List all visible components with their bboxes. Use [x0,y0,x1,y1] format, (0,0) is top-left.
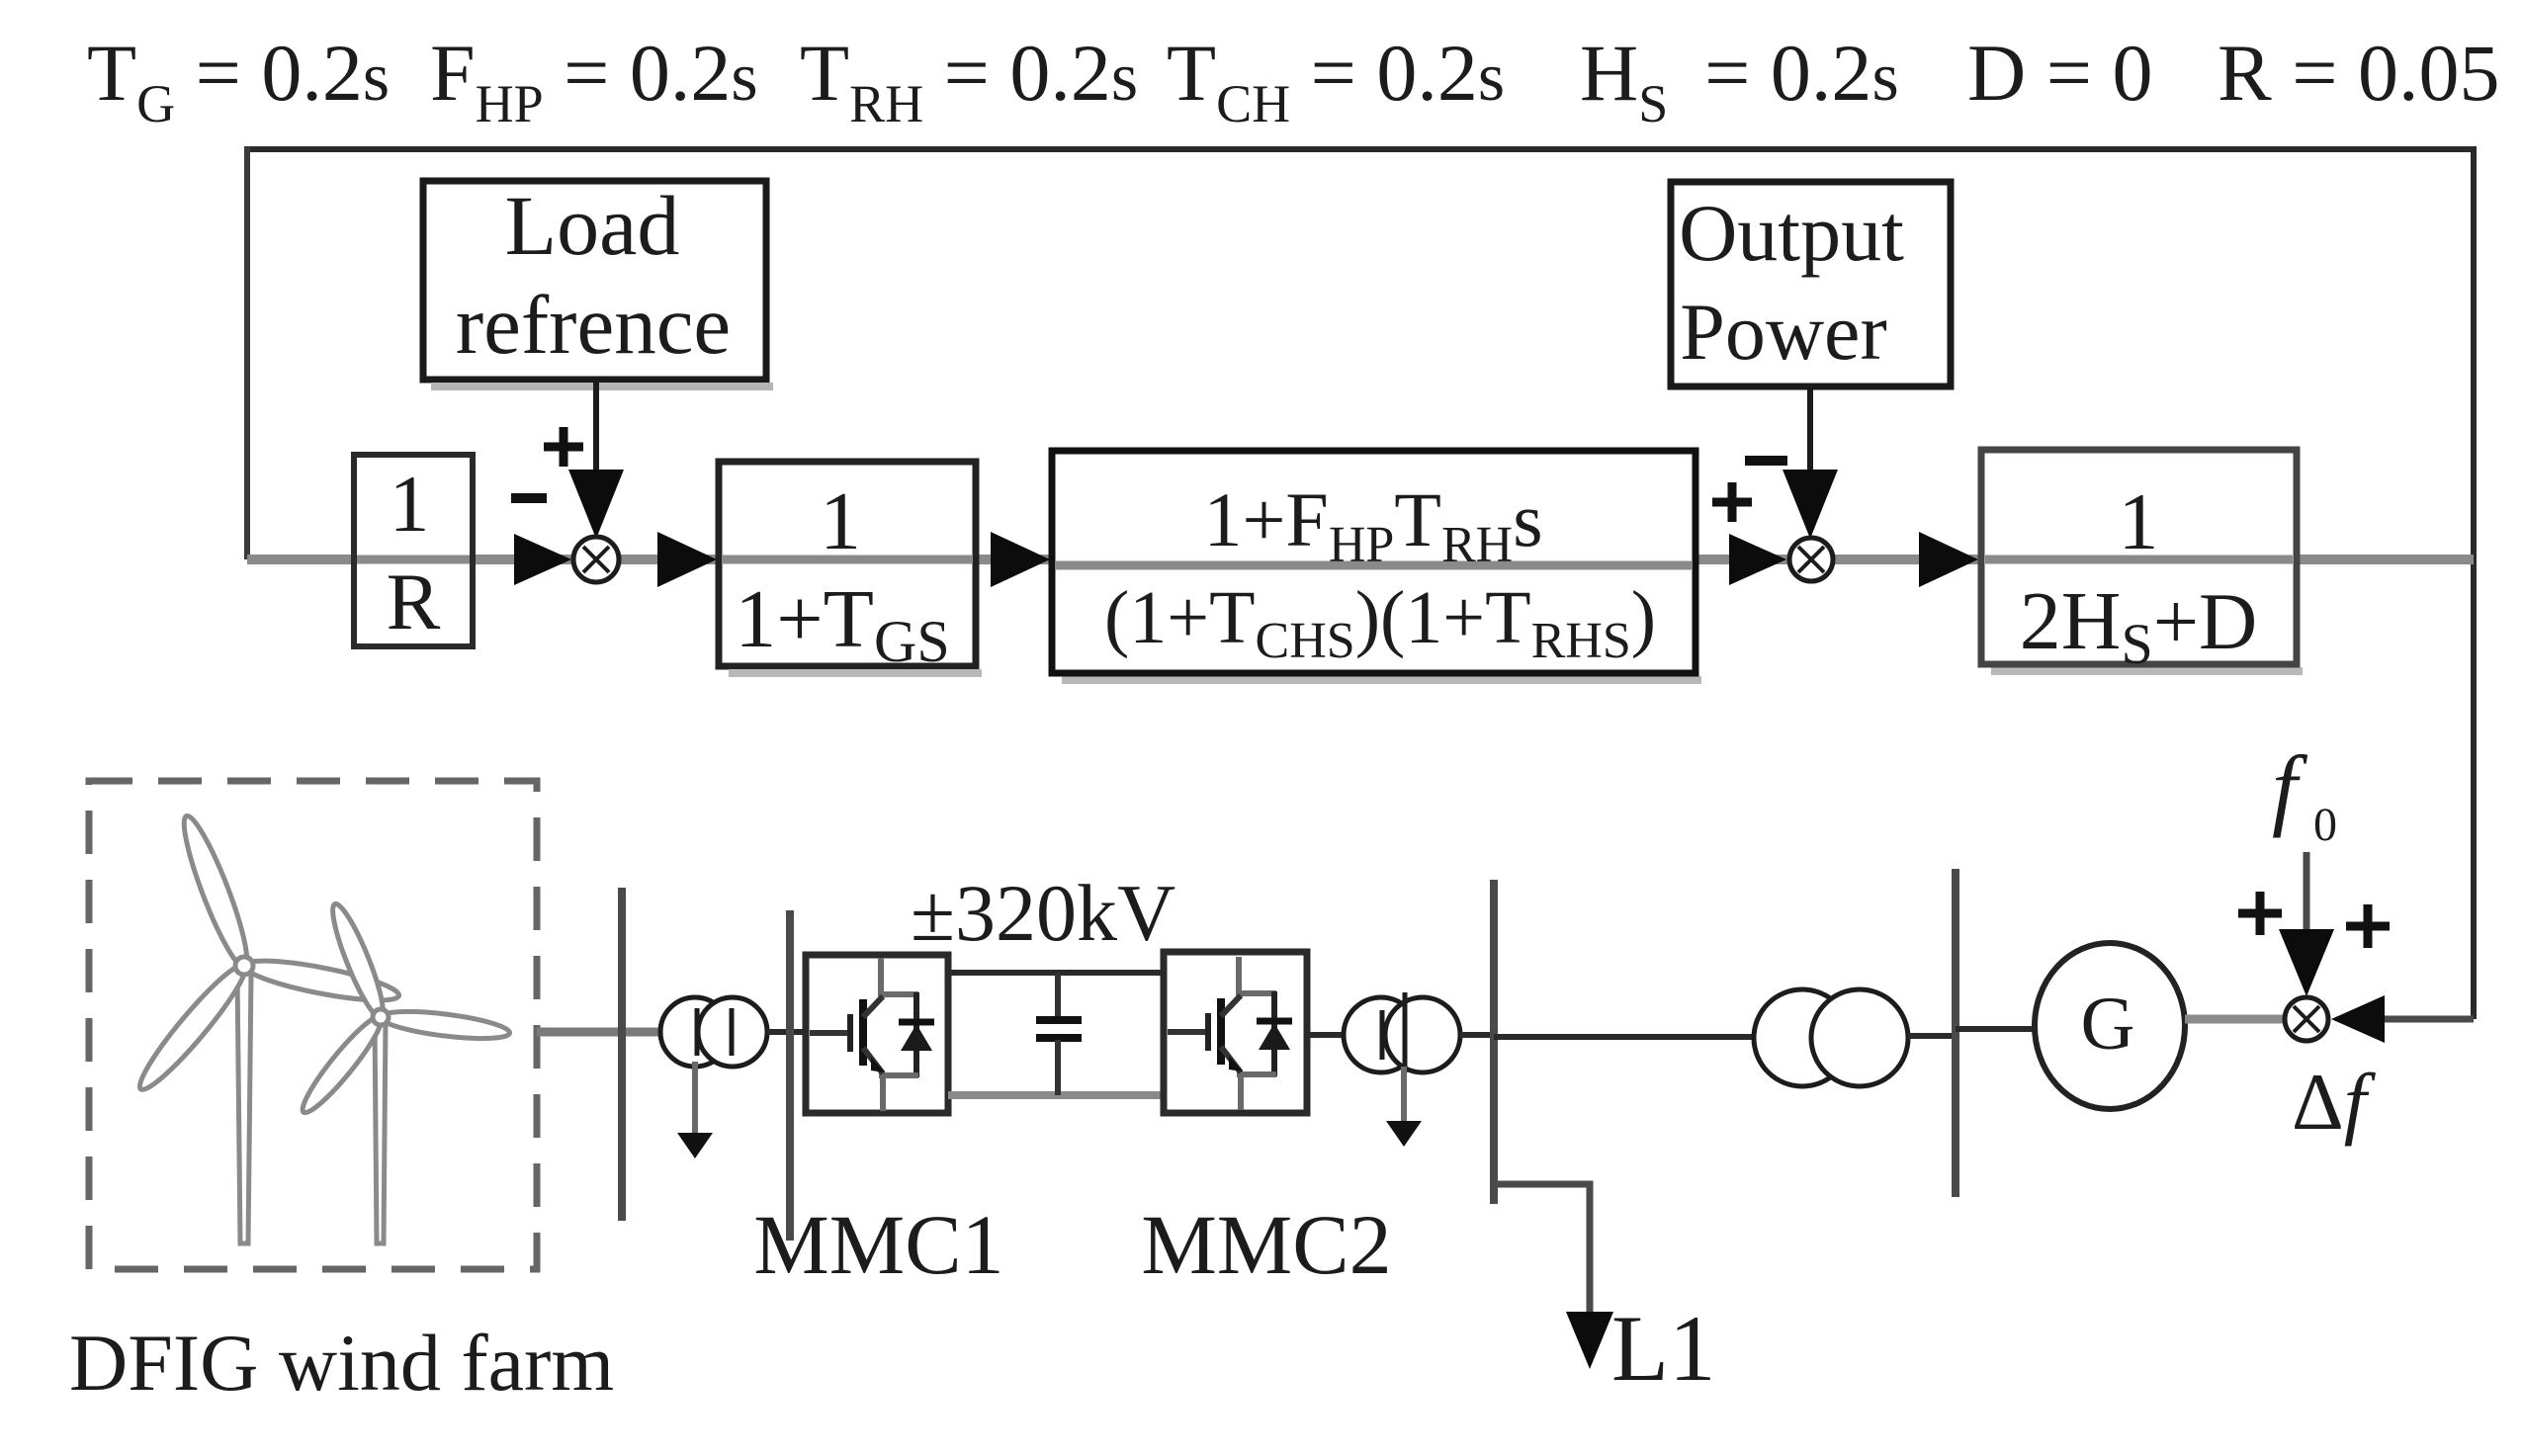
svg-text:1: 1 [390,459,430,549]
bus bar 4 [1952,869,1959,1197]
ground under T2 [1401,1067,1407,1123]
summing junction sum1 [573,537,619,582]
bus bar 1 [618,888,626,1221]
svg-text:0: 0 [2313,799,2337,851]
svg-text:R = 0.05: R = 0.05 [2218,28,2499,118]
wire outer-loop top [245,146,2476,152]
svg-text:MMC1: MMC1 [753,1197,1003,1292]
summing junction sum3 [2285,997,2328,1041]
svg-text:DFIG wind farm: DFIG wind farm [69,1318,614,1408]
svg-text:FHP = 0.2s: FHP = 0.2s [430,28,758,133]
block Output Power [1671,182,1951,386]
svg-text:Δf: Δf [2292,1057,2377,1147]
wire T1 to bus2 [767,1029,806,1035]
block Load refrence [423,178,773,386]
label minus at sum2 [1745,456,1787,466]
block 1/(1+TGs) [719,462,976,674]
svg-text:1: 1 [2119,476,2159,566]
DFIG dashed box [89,781,537,1269]
node params-line [87,28,2499,133]
svg-text:f: f [2272,737,2308,838]
wire output-power drop [1807,386,1813,491]
svg-text:MMC2: MMC2 [1141,1197,1391,1292]
svg-text:Power: Power [1680,287,1887,377]
wire windfarm to bus1 [537,1028,660,1037]
block 1/R [354,455,473,646]
svg-text:TG = 0.2s: TG = 0.2s [87,28,390,133]
arrow into sum1 from top [568,470,624,539]
wire bus4 to G [1956,1026,2039,1032]
summing junction sum2 [1789,538,1833,581]
svg-text:Output: Output [1679,188,1904,278]
wire outer-loop left vertical [244,146,250,559]
arrow load L1 [1566,1312,1613,1369]
block drop shadows [729,671,2303,680]
svg-text:±320kV: ±320kV [911,868,1175,958]
svg-text:TCH = 0.2s: TCH = 0.2s [1167,28,1505,133]
load L1 branch wire [1494,1184,1590,1320]
bus bar 2 [786,910,794,1241]
wire load-ref drop [593,380,599,491]
ground under T1 [692,1062,698,1135]
svg-text:refrence: refrence [456,279,731,372]
label plus left at sum3 [2238,892,2282,935]
label plus at sum1 [544,427,583,467]
wire main row [247,555,2474,564]
svg-text:Load: Load [505,178,680,273]
block 1/(2Hs+D) [1981,450,2297,676]
arrow into block 1/(2Hs+D) [1919,532,1978,587]
label plus right at sum3 [2346,904,2390,948]
bus bar 3 [1490,880,1498,1204]
svg-text:D = 0: D = 0 [1967,28,2152,118]
wire feedback into sum3 from right [2373,1016,2474,1023]
wire MMC2 to T2 [1307,1032,1345,1038]
label minus at sum1 [511,493,547,503]
wire T3 to bus4 [1908,1033,1956,1039]
label plus at sum2 [1712,482,1752,522]
arrow into sum2 from top [1783,470,1838,539]
converter MMC2 [1164,952,1307,1113]
arrow into big block [991,532,1050,587]
transformer T3 [1754,989,1908,1086]
wire G to sum3 [2185,1015,2285,1024]
transformer T2 [1344,992,1460,1072]
transformer T1 [660,997,767,1067]
wind turbine 1 [130,812,401,1243]
svg-text:HS = 0.2s: HS = 0.2s [1580,28,1899,133]
block turbine transfer function [1052,451,1696,673]
wire f0 drop [2304,852,2310,949]
DC link bottom rail [948,1091,1164,1099]
wire bus3 to T3 [1494,1034,1757,1040]
arrow into block 1/(1+TGs) [657,532,717,587]
arrow into sum3 from right [2331,995,2385,1043]
arrow into sum3 from top [2279,929,2334,996]
wind turbine 2 [295,899,510,1243]
svg-text:L1: L1 [1611,1296,1716,1401]
generator G [2035,943,2185,1109]
capacitor C [1036,973,1082,1095]
converter MMC1 [806,955,948,1113]
arrow into sum1 from left [514,534,571,585]
svg-text:R: R [387,557,441,646]
DC link top rail [948,970,1164,976]
svg-text:1: 1 [820,475,861,567]
wire outer-loop right vertical [2471,146,2477,1019]
svg-text:G: G [2081,983,2135,1066]
wire T2 to bus3 [1460,1032,1494,1038]
svg-text:TRH = 0.2s: TRH = 0.2s [800,28,1138,133]
arrow into sum2 from left [1729,534,1786,585]
